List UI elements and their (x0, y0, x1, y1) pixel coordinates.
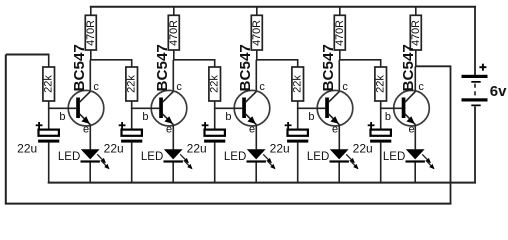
battery BT1 cell 1 long plate (462, 75, 488, 78)
svg-text:e: e (249, 123, 255, 135)
LED D5 cathode bar (406, 160, 425, 162)
svg-text:b: b (225, 111, 231, 123)
transistor Q4 base bar (325, 98, 329, 119)
transistor Q1 emitter arrowhead (81, 116, 89, 124)
transistor Q4 collector diagonal (329, 92, 340, 103)
wire: stage 1 emitter vertical to LED (89, 124, 91, 149)
wire: stage 1 collector vertical (470R bottom to transistor) (90, 50, 92, 60)
resistor R3b 22k body (209, 67, 221, 101)
transistor Q4 BC547 circle (317, 90, 353, 126)
LED D1 emission arrow 1 (97, 154, 105, 162)
capacitor C2 negative plate (121, 140, 142, 143)
wire: stage 1 base wire (48, 107, 77, 109)
LED D1 anode triangle (81, 149, 100, 159)
capacitor C1 positive plate (39, 130, 59, 136)
capacitor C5 negative plate (370, 140, 391, 143)
LED D4 emission arrow 1 (346, 154, 354, 162)
LED D1 emission arrow 2 (101, 160, 109, 168)
wire: stage 3 collector to stage 4 22k coupling (256, 59, 299, 61)
resistor R2b 22k body (126, 67, 138, 101)
capacitor C4 plus sign (285, 124, 292, 126)
resistor R5a 470R body (410, 15, 421, 50)
capacitor C3 positive plate (205, 130, 225, 136)
transistor Q5 BC547 circle (394, 90, 430, 126)
transistor Q1 BC547 circle (68, 90, 104, 126)
svg-text:c: c (176, 81, 182, 93)
resistor R5b 22k body (375, 67, 387, 101)
wire: feedback bottom rail (collector Q5 to R2 of stage 1) (5, 203, 452, 205)
wire: stage 4 collector to stage 5 22k coupling (339, 59, 382, 61)
wire: stage 2 collector to stage 3 22k coupling (173, 59, 216, 61)
capacitor C2 plus sign (119, 124, 126, 126)
wire: stage 2 LED cathode lead to ground rail (172, 162, 174, 182)
wire: left feedback vertical (5, 55, 7, 204)
svg-text:470R: 470R (410, 20, 422, 46)
transistor Q2 emitter arrowhead (164, 116, 172, 124)
wire: stage 1 capacitor bottom lead to ground rail (48, 143, 50, 183)
svg-text:b: b (142, 111, 148, 123)
wire: stage 5 LED cathode lead to ground rail (414, 162, 416, 182)
svg-text:22k: 22k (126, 75, 138, 93)
resistor R1b 22k body (43, 67, 55, 101)
LED D1 cathode bar (81, 160, 100, 162)
svg-text:c: c (418, 81, 424, 93)
wire: battery negative lead to ground rail (474, 106, 476, 182)
transistor Q2 BC547 circle (151, 90, 187, 126)
wire: stage 5 capacitor bottom lead to ground rail (380, 143, 382, 183)
wire: stage 1 LED cathode lead to ground rail (89, 162, 91, 182)
svg-text:BC547: BC547 (237, 44, 254, 91)
svg-text:LED: LED (307, 151, 329, 163)
wire: stage 3 LED cathode lead to ground rail (255, 162, 257, 182)
wire: stage 3 capacitor top lead (214, 108, 216, 129)
svg-text:LED: LED (141, 151, 163, 163)
battery BT1 cell 2 long plate (462, 98, 488, 101)
transistor Q3 emitter arrowhead (247, 116, 255, 124)
LED D3 emission arrow 1 (263, 154, 271, 162)
transistor Q5 emitter diagonal (405, 114, 415, 125)
LED D3 anode triangle (247, 149, 266, 159)
LED D3 cathode bar (247, 160, 266, 162)
wire: stage 5 470R top lead (415, 7, 417, 16)
LED D3 emission arrow 2 (267, 160, 275, 168)
transistor Q1 emitter diagonal (80, 114, 91, 125)
resistor R4b 22k body (292, 67, 304, 101)
svg-text:470R: 470R (85, 20, 97, 46)
wire: stage 2 emitter vertical to LED (172, 124, 174, 149)
battery BT1 cell 1 short plate (471, 81, 480, 83)
capacitor C4 negative plate (287, 140, 308, 143)
svg-text:c: c (259, 81, 265, 93)
svg-text:c: c (93, 81, 99, 93)
svg-text:e: e (409, 123, 415, 135)
transistor Q3 BC547 circle (234, 90, 270, 126)
svg-text:470R: 470R (334, 20, 346, 46)
wire: stage 5 collector vertical (470R bottom to transistor) (415, 50, 417, 66)
capacitor C1 negative plate (38, 140, 59, 143)
wire: stage 3 470R top lead (256, 7, 258, 16)
capacitor C3 plus sign (202, 124, 209, 126)
svg-text:22u: 22u (187, 142, 207, 156)
wire: stage 4 capacitor bottom lead to ground rail (297, 143, 299, 183)
svg-text:b: b (385, 111, 391, 123)
wire: stage 1 470R top lead (90, 7, 92, 16)
wire: ground/emitter bottom rail (48, 182, 476, 184)
wire: stage 5 22k top lead (380, 60, 382, 67)
svg-text:BC547: BC547 (320, 44, 337, 91)
svg-text:470R: 470R (251, 20, 263, 46)
transistor Q1 base bar (76, 98, 80, 119)
wire: stage 1 collector to stage 2 22k coupling (90, 59, 133, 61)
wire: stage 1 capacitor top lead (48, 108, 50, 129)
wire: stage 4 22k top lead (297, 60, 299, 67)
LED D5 emission arrow 1 (422, 154, 430, 162)
transistor Q2 base bar (159, 98, 163, 119)
LED D5 emission arrow 2 (426, 160, 434, 168)
svg-text:22u: 22u (104, 142, 124, 156)
LED D2 emission arrow 2 (184, 160, 192, 168)
svg-text:22k: 22k (292, 75, 304, 93)
wire: +6V top supply rail (90, 6, 476, 8)
wire: stage 4 22k bottom lead (297, 101, 299, 108)
battery BT1 dashed cell link (474, 84, 476, 98)
transistor Q4 emitter arrowhead (330, 116, 338, 124)
wire: stage 2 collector vertical (470R bottom to transistor) (173, 50, 175, 60)
svg-text:e: e (332, 123, 338, 135)
svg-text:470R: 470R (168, 20, 180, 46)
wire: stage 3 emitter vertical to LED (255, 124, 257, 149)
svg-text:22k: 22k (43, 75, 55, 93)
wire: stage 4 base wire (297, 107, 326, 109)
transistor Q3 base bar (242, 98, 246, 119)
wire: stage 3 base wire (214, 107, 243, 109)
wire: stage 2 22k top lead (131, 60, 133, 67)
capacitor C2 positive plate (122, 130, 142, 136)
capacitor C3 negative plate (204, 140, 225, 143)
resistor R3a 470R body (251, 15, 262, 50)
wire: stage 5 capacitor top lead (380, 108, 382, 129)
LED D2 cathode bar (164, 160, 183, 162)
wire: battery positive lead from top rail (474, 7, 476, 75)
battery BT1 plus sign (479, 66, 486, 68)
svg-text:22k: 22k (375, 75, 387, 93)
svg-text:22u: 22u (353, 142, 373, 156)
svg-text:LED: LED (224, 151, 246, 163)
svg-text:b: b (59, 111, 65, 123)
transistor Q3 emitter diagonal (246, 114, 257, 125)
transistor Q4 emitter diagonal (329, 114, 340, 125)
wire: stage 3 22k bottom lead (214, 101, 216, 108)
capacitor C4 positive plate (288, 130, 308, 136)
wire: stage 2 base wire (131, 107, 160, 109)
wire: stage 4 capacitor top lead (297, 108, 299, 129)
capacitor C5 positive plate (371, 130, 391, 136)
wire: stage 2 470R top lead (173, 7, 175, 16)
svg-text:LED: LED (58, 151, 80, 163)
transistor Q5 collector diagonal (405, 92, 415, 103)
LED D4 anode triangle (330, 149, 349, 159)
wire: stage 4 LED cathode lead to ground rail (338, 162, 340, 182)
svg-text:BC547: BC547 (71, 44, 88, 91)
wire: stage 4 collector vertical (470R bottom to transistor) (339, 50, 341, 60)
wire: stage 2 22k bottom lead (131, 101, 133, 108)
svg-text:e: e (83, 123, 89, 135)
svg-text:BC547: BC547 (154, 44, 171, 91)
wire: stage 5 emitter vertical to LED (414, 124, 416, 149)
resistor R2a 470R body (168, 15, 179, 50)
svg-text:LED: LED (383, 151, 405, 163)
wire: stage 3 22k top lead (214, 60, 216, 67)
wire: stage 2 capacitor bottom lead to ground rail (131, 143, 133, 183)
wire: stage 1 22k bottom lead (48, 101, 50, 108)
wire: stage 5 22k bottom lead (380, 101, 382, 108)
wire: stage 5 collector feedback to right vertical (415, 65, 451, 67)
transistor Q5 base bar (402, 98, 406, 119)
svg-text:6v: 6v (490, 83, 507, 100)
capacitor C5 plus sign (368, 124, 375, 126)
svg-text:22u: 22u (270, 142, 290, 156)
transistor Q2 emitter diagonal (163, 114, 174, 125)
resistor R4a 470R body (334, 15, 345, 50)
transistor Q1 collector diagonal (80, 92, 91, 103)
wire: stage1 22k top lead (48, 55, 50, 68)
LED D4 cathode bar (330, 160, 349, 162)
svg-text:BC547: BC547 (400, 44, 417, 91)
wire: stage 3 capacitor bottom lead to ground rail (214, 143, 216, 183)
svg-text:b: b (308, 111, 314, 123)
LED D2 anode triangle (164, 149, 183, 159)
capacitor C1 plus sign (36, 124, 43, 126)
svg-text:22k: 22k (209, 75, 221, 93)
transistor Q2 collector diagonal (163, 92, 174, 103)
svg-text:c: c (342, 81, 348, 93)
svg-text:e: e (166, 123, 172, 135)
wire: stage 2 capacitor top lead (131, 108, 133, 129)
transistor Q5 emitter arrowhead (406, 116, 414, 124)
LED D5 anode triangle (406, 149, 425, 159)
battery BT1 cell 2 short plate (471, 105, 480, 107)
wire: stage 3 collector vertical (470R bottom to transistor) (256, 50, 258, 60)
wire: stage 4 470R top lead (339, 7, 341, 16)
LED D4 emission arrow 2 (350, 160, 358, 168)
wire: right feedback vertical (Q5 collector down to bottom rail) (450, 66, 452, 203)
svg-text:22u: 22u (17, 142, 37, 156)
resistor R1a 470R body (85, 15, 96, 50)
wire: stage 4 emitter vertical to LED (338, 124, 340, 149)
wire: stage 5 base wire (380, 107, 402, 109)
LED D2 emission arrow 1 (180, 154, 188, 162)
wire: stage1 22k feed from left vertical (6, 54, 50, 56)
transistor Q3 collector diagonal (246, 92, 257, 103)
